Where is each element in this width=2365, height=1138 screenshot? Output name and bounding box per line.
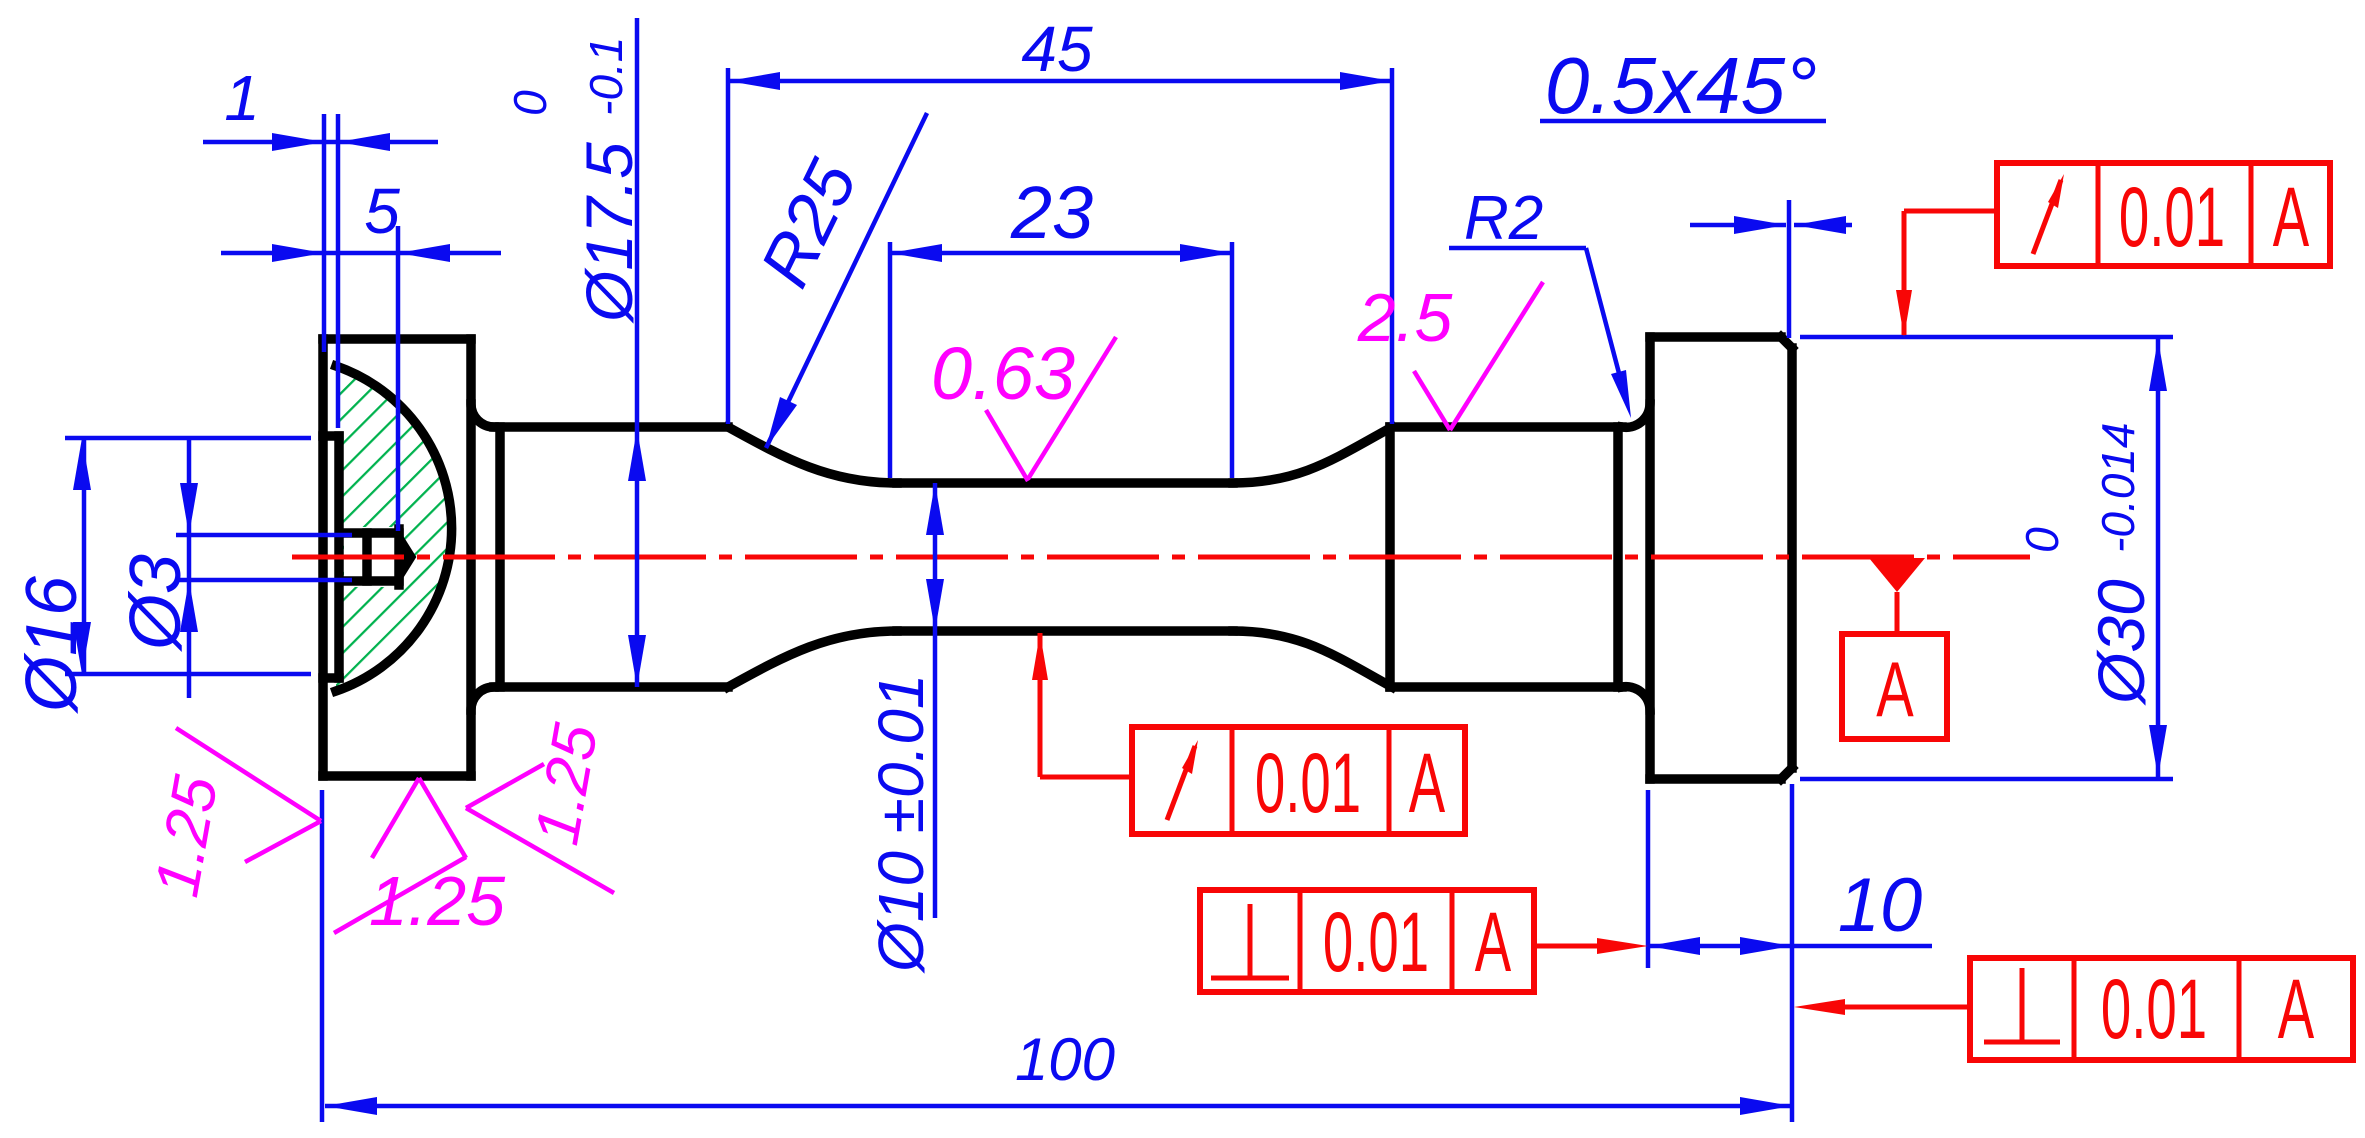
svg-text:1.25: 1.25 (142, 771, 231, 902)
svg-text:Ø30 0-0.014: Ø30 0-0.014 (2016, 422, 2158, 706)
svg-text:5: 5 (364, 175, 400, 247)
svg-text:0.01: 0.01 (1323, 896, 1429, 990)
svg-text:A: A (1876, 646, 1914, 733)
svg-text:0.01: 0.01 (2101, 963, 2207, 1057)
svg-text:A: A (1409, 737, 1446, 831)
svg-text:0.01: 0.01 (1255, 737, 1361, 831)
svg-text:A: A (2273, 171, 2310, 265)
svg-text:R2: R2 (1464, 184, 1543, 253)
svg-text:A: A (1475, 896, 1512, 990)
svg-text:1.25: 1.25 (369, 862, 506, 940)
svg-text:1.25: 1.25 (522, 719, 611, 850)
svg-text:1: 1 (224, 62, 260, 134)
svg-text:100: 100 (1015, 1026, 1115, 1093)
svg-text:2.5: 2.5 (1357, 280, 1453, 356)
svg-text:0.63: 0.63 (931, 332, 1075, 415)
svg-text:Ø10 ±0.01: Ø10 ±0.01 (865, 674, 937, 974)
svg-text:10: 10 (1838, 863, 1923, 948)
svg-text:23: 23 (1010, 171, 1093, 254)
svg-text:A: A (2278, 963, 2315, 1057)
svg-text:Ø3: Ø3 (116, 554, 196, 652)
svg-text:Ø16: Ø16 (12, 575, 92, 714)
svg-text:0.01: 0.01 (2119, 171, 2225, 265)
svg-text:R25: R25 (745, 148, 872, 299)
svg-text:0.5x45°: 0.5x45° (1545, 41, 1817, 130)
svg-text:45: 45 (1021, 13, 1093, 85)
svg-text:Ø17.5 0-0.1: Ø17.5 0-0.1 (504, 37, 646, 324)
